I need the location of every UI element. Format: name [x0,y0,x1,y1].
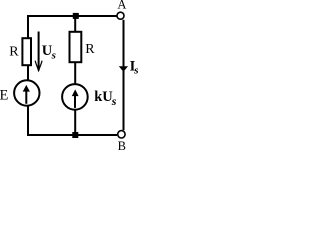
node B terminal circle [118,131,125,138]
svg-text:R: R [85,42,95,57]
junction dot top (branch 2) [73,13,79,19]
svg-text:B: B [118,139,126,152]
label kUs [94,89,117,108]
wire bottom horizontal [27,134,117,136]
voltage arrow Us [35,32,42,73]
wire branch2 vertical lower [74,109,76,135]
wire left vertical middle [27,66,29,82]
label Us [42,43,56,61]
wire left vertical upper [27,15,29,39]
junction dot bottom (branch 2) [72,132,78,138]
svg-text:R: R [9,45,19,60]
resistor R (left) [22,38,31,65]
label Is [130,59,139,77]
svg-text:E: E [0,88,9,104]
svg-text:s: s [51,50,56,62]
current arrow Is (arrowhead on right wire) [119,66,128,71]
svg-text:A: A [117,0,126,11]
node A terminal circle [117,12,124,19]
dependent source kUs (circle with up arrow) [62,84,88,110]
source E (independent source circle with up arrow) [14,80,39,105]
wire right vertical [123,20,125,130]
svg-text:s: s [111,94,117,108]
resistor R (right) [70,32,82,62]
wire left vertical lower [27,106,29,137]
svg-text:s: s [133,64,138,76]
wire top horizontal [27,15,117,17]
svg-text:kU: kU [94,89,113,105]
wire branch2 vertical middle [74,62,76,85]
wire branch2 vertical upper [74,16,76,32]
